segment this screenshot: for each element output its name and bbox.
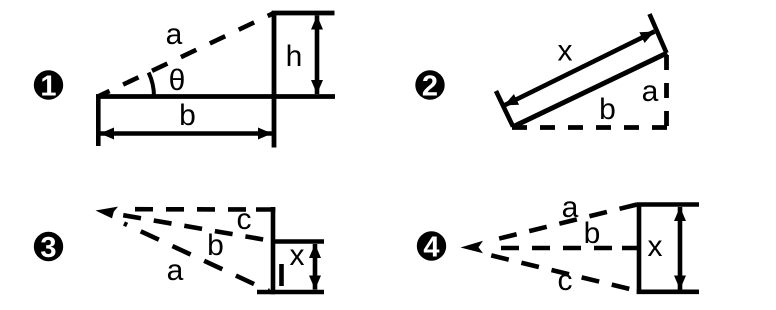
figure1 baseline xyxy=(96,94,335,99)
figure4 dashed line a xyxy=(487,205,638,242)
svg-text:3: 3 xyxy=(40,232,56,264)
svg-text:b: b xyxy=(179,99,196,132)
figure3 vertical xyxy=(271,207,276,294)
figure4 mid tick xyxy=(622,246,641,251)
svg-text:c: c xyxy=(558,264,573,297)
figure1 angle arc xyxy=(149,73,154,97)
badge 4 xyxy=(417,231,446,263)
badge 2 xyxy=(415,70,444,102)
figure3 top bar xyxy=(256,207,275,212)
figure4 x arrow xyxy=(678,207,683,290)
figure2 upper tick xyxy=(650,14,667,53)
figure2 ramp line xyxy=(513,53,668,127)
badge 3 xyxy=(34,232,63,264)
svg-text:θ: θ xyxy=(169,64,186,97)
figure1 top line xyxy=(272,11,335,16)
figure3 bottom bar xyxy=(257,290,324,295)
figure1 left vertical xyxy=(96,94,101,146)
svg-text:2: 2 xyxy=(422,71,438,103)
figure2 lower tick xyxy=(496,91,513,127)
svg-text:x: x xyxy=(558,35,573,68)
badge 1 xyxy=(34,70,63,102)
svg-text:x: x xyxy=(290,239,305,272)
figure3 x arrow xyxy=(313,244,318,290)
figure1 h arrow xyxy=(315,16,320,95)
figure3 dashed line b xyxy=(123,215,272,241)
figure1 b arrow xyxy=(100,131,272,136)
svg-text:a: a xyxy=(166,18,183,51)
svg-text:c: c xyxy=(237,203,252,236)
svg-text:a: a xyxy=(167,254,184,287)
svg-text:4: 4 xyxy=(423,232,439,264)
svg-text:h: h xyxy=(286,40,303,73)
figure3 small tick xyxy=(279,264,284,286)
svg-text:b: b xyxy=(207,229,224,262)
figure2 x arrow xyxy=(504,32,655,106)
figure1 right vertical xyxy=(272,11,277,148)
figure4 arrowhead xyxy=(461,241,484,253)
figure3 dashed line c xyxy=(133,207,257,212)
figure3 mid bar xyxy=(271,239,324,244)
figure4 dashed line b xyxy=(488,246,621,251)
svg-text:a: a xyxy=(642,75,659,108)
figure2 dashed side a xyxy=(664,55,669,129)
figure1 hypotenuse a (dashed) xyxy=(99,13,274,96)
figure3 arrowhead xyxy=(96,207,119,219)
svg-text:x: x xyxy=(648,230,663,263)
figure4 top bar xyxy=(637,202,699,207)
figure4 vertical xyxy=(637,205,642,294)
figure4 bottom bar xyxy=(637,289,699,294)
svg-text:a: a xyxy=(562,191,579,224)
figure3 dashed line a xyxy=(124,224,269,292)
figure4 dashed line c xyxy=(491,255,638,291)
svg-text:b: b xyxy=(599,93,616,126)
svg-text:b: b xyxy=(584,217,601,250)
figure2 dashed base b xyxy=(512,125,668,130)
svg-text:1: 1 xyxy=(40,71,56,103)
